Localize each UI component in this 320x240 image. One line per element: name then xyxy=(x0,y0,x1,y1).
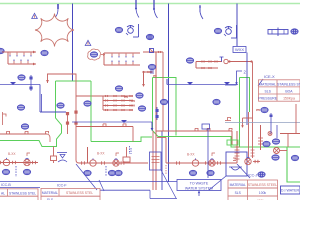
svg-text:WXX: WXX xyxy=(235,47,244,52)
control valve CV1 xyxy=(126,24,139,37)
tank T3 xyxy=(240,78,250,148)
instrument bubble hatched right xyxy=(291,29,298,35)
drop hook H1 xyxy=(56,4,59,17)
elbow labeled 2 xyxy=(225,70,247,86)
heater bank 4 quad lines xyxy=(76,95,133,111)
instrument bubble LSH xyxy=(21,124,28,130)
red pipe right with flag valves xyxy=(156,128,233,145)
bubble on right stack xyxy=(272,139,279,145)
valve square on drop xyxy=(74,111,77,114)
revision cloud A xyxy=(35,14,74,47)
red jumper over tank1 xyxy=(46,74,79,163)
table ICC-J xyxy=(228,180,278,204)
blue valve stack mid xyxy=(155,107,158,120)
instrument bubble heater3 xyxy=(186,58,193,64)
blue utility box small left xyxy=(150,152,162,170)
heater coil bank 2 top line xyxy=(104,53,140,58)
heater coil bank 3 bottom line xyxy=(196,62,218,69)
right drop with bellows xyxy=(258,125,263,150)
blue dashed gauge under tankB xyxy=(129,146,131,154)
pump P4 xyxy=(245,157,251,164)
bubble below valve xyxy=(272,155,279,161)
inline pump circle small xyxy=(224,59,228,63)
valve circle X right xyxy=(274,148,288,154)
svg-text:STAINLESS STEL: STAINLESS STEL xyxy=(66,191,93,195)
instrument bubble mid cluster xyxy=(148,64,155,73)
instrument bubble LT1 xyxy=(18,75,25,81)
instrument bubbles train3 xyxy=(189,170,196,176)
svg-text:ICE-X: ICE-X xyxy=(264,74,275,79)
green tag box xyxy=(227,140,238,145)
equipment tag box WXX xyxy=(233,47,246,53)
vertical red secondary xyxy=(162,52,164,131)
blue stub above bubble xyxy=(276,125,278,138)
pump P4 outlet xyxy=(253,160,260,163)
heater coil bank 1 bottom line xyxy=(8,52,36,65)
far right piping top xyxy=(270,113,301,134)
leader to ICC-F xyxy=(99,180,104,191)
waterline tank3 xyxy=(167,79,238,85)
waterline tank1 xyxy=(0,82,40,85)
svg-text:TO WASTE: TO WASTE xyxy=(190,182,209,186)
vertical red main mid xyxy=(155,52,157,190)
svg-text:AL: AL xyxy=(1,191,5,195)
D.I WATER box xyxy=(281,186,301,194)
svg-text:MATERIAL: MATERIAL xyxy=(230,183,246,187)
red arrow at cloud bubble xyxy=(101,53,105,56)
instrument bubble mid-right2 xyxy=(213,99,220,105)
control valve CV2 xyxy=(224,25,237,38)
parallel red drop xyxy=(66,112,69,134)
svg-text:BOA: BOA xyxy=(285,89,293,93)
instrument bubble right drop xyxy=(263,141,270,147)
svg-text:SLS: SLS xyxy=(264,89,271,93)
bottom border line xyxy=(0,181,177,183)
svg-text:MATERIAL: MATERIAL xyxy=(259,82,276,86)
tank T1 xyxy=(0,81,91,147)
riser pipe V3 xyxy=(236,4,238,47)
drop hook H2 xyxy=(135,0,139,18)
drop hook H3 xyxy=(153,0,158,18)
feed hline top mid xyxy=(143,49,163,53)
valve stack on tank1 xyxy=(29,75,32,91)
leader to ICC-J xyxy=(237,164,250,178)
instrument bubbles train2 xyxy=(84,170,91,176)
drain drop tank1 xyxy=(51,147,68,164)
waterline tank2 xyxy=(72,120,153,131)
svg-text:150Kpa: 150Kpa xyxy=(283,97,295,101)
red drain stub left edge xyxy=(3,112,7,125)
vent glyph train3 xyxy=(212,153,215,156)
svg-text:SLS: SLS xyxy=(47,198,54,200)
top header pipe xyxy=(0,3,300,5)
pump train 2 xyxy=(79,147,148,176)
riser pipe V1 xyxy=(72,4,74,82)
svg-text:MATERIAL: MATERIAL xyxy=(42,191,58,195)
instrument bubble hatched xyxy=(146,34,153,40)
riser pipe V2 xyxy=(168,4,170,183)
leader from small box to waste xyxy=(161,170,176,198)
bowtie + bubble under table xyxy=(257,107,268,113)
svg-text:B-XX: B-XX xyxy=(187,153,195,157)
instrument tag box mid xyxy=(202,124,210,178)
instrument bubble right heater bank xyxy=(136,93,143,99)
green trough right long xyxy=(158,137,287,148)
instrument bubble FO1 xyxy=(41,50,48,56)
level line right xyxy=(225,122,300,124)
svg-text:B-XX: B-XX xyxy=(8,152,16,156)
vertical red bundle to bottom xyxy=(155,182,157,190)
svg-text:STAINLESS ST: STAINLESS ST xyxy=(277,82,300,86)
instrument bubble right heater bank 2 xyxy=(138,106,145,112)
gauge box xyxy=(41,94,43,112)
instrument bubble LI1 xyxy=(17,105,24,111)
heater coil bank 1 top line xyxy=(2,51,36,57)
pump train 3 xyxy=(157,138,237,175)
riser to train3 with bellows xyxy=(235,131,240,163)
instrument cluster bubble TI xyxy=(115,27,122,33)
instrument bubble edge-left xyxy=(0,48,4,54)
instrument bubble right of drop xyxy=(84,101,91,107)
red pipe lower-left with flag valves xyxy=(0,131,50,142)
svg-text:2: 2 xyxy=(244,70,247,75)
drain drop tank2 xyxy=(123,147,131,162)
right edge drop pipe xyxy=(295,104,297,134)
red feed line mid xyxy=(142,71,152,87)
red pipe mid with flag valves xyxy=(76,124,133,142)
right column pipes xyxy=(250,60,254,158)
instrument bubble mid-right xyxy=(160,99,167,105)
table bottom-mid ICC-F xyxy=(41,188,100,204)
heater coil bank 2 bottom line xyxy=(104,53,140,65)
tank T2 xyxy=(153,78,177,137)
svg-text:100k: 100k xyxy=(259,191,267,195)
table ICE-X xyxy=(258,74,301,101)
inline static mixer xyxy=(268,28,288,37)
instrument bubble right-top xyxy=(214,28,221,34)
drop hook H4 xyxy=(199,5,203,19)
leader line to waste box xyxy=(209,176,226,190)
instrument bubble left of drop xyxy=(57,103,64,109)
drain flag far left xyxy=(225,118,231,121)
green trough under tank1 xyxy=(91,137,152,142)
valve flag on heater3 xyxy=(220,57,224,62)
blue utility box xyxy=(226,152,247,176)
instrument bubble above bank4 left xyxy=(115,86,122,92)
leader line train2 xyxy=(76,164,97,190)
red valve circle on right pipe xyxy=(268,132,272,136)
svg-text:ICC-F: ICC-F xyxy=(57,184,67,188)
bubble in rect D xyxy=(291,155,298,161)
green rect D.I. xyxy=(287,147,300,182)
warning triangle 1 xyxy=(32,13,38,18)
instrument bubble near ICC-J xyxy=(258,172,265,178)
vent glyph train1 xyxy=(27,153,30,156)
pipe to right column xyxy=(228,60,253,62)
svg-text:STAINLESS STEL: STAINLESS STEL xyxy=(9,191,36,195)
bottom border line 2 xyxy=(0,187,40,189)
svg-text:PRESSURE: PRESSURE xyxy=(258,97,277,101)
svg-text:STAINLESS STEEL: STAINLESS STEEL xyxy=(248,183,277,187)
waste water box xyxy=(177,180,221,197)
svg-text:150kpa: 150kpa xyxy=(257,199,268,200)
red drop to rect D xyxy=(287,134,289,148)
svg-text:WATER SYSTEM: WATER SYSTEM xyxy=(185,186,213,190)
bowtie mid cluster xyxy=(154,75,157,77)
vent glyph train2 xyxy=(116,153,119,156)
warning triangle 2 xyxy=(85,40,91,45)
table bottom-left xyxy=(0,189,38,204)
svg-text:D.I WATER: D.I WATER xyxy=(281,189,300,193)
instrument bubble in cloud xyxy=(88,49,101,60)
heater coil bank 3 top line xyxy=(196,61,222,63)
svg-text:SLS: SLS xyxy=(235,191,242,195)
right mid piping xyxy=(241,118,252,128)
right column blue pipe xyxy=(246,53,248,126)
instrument bubbles train1 xyxy=(2,169,9,175)
svg-text:ICC-B: ICC-B xyxy=(1,183,11,187)
svg-text:B-XX: B-XX xyxy=(97,152,105,156)
tank C drain pipe xyxy=(249,112,250,159)
pump train 1 xyxy=(0,152,38,177)
tank1 outlet piping xyxy=(40,85,66,113)
